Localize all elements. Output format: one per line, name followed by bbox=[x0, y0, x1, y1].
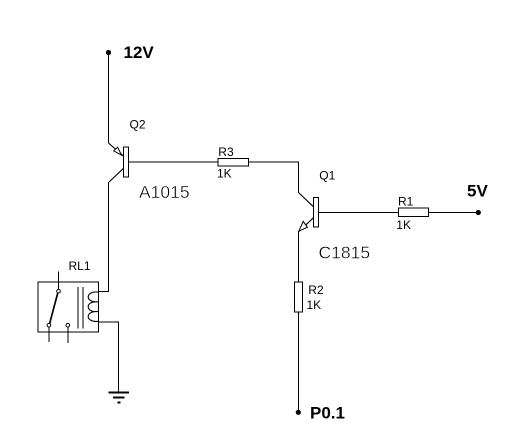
ground bbox=[108, 393, 129, 403]
svg-text:5V: 5V bbox=[467, 182, 488, 201]
resistor R3 bbox=[218, 159, 249, 167]
svg-text:1K: 1K bbox=[396, 218, 411, 232]
svg-text:R2: R2 bbox=[308, 283, 324, 297]
svg-text:R3: R3 bbox=[218, 145, 234, 159]
svg-text:P0.1: P0.1 bbox=[310, 403, 345, 422]
svg-text:Q1: Q1 bbox=[319, 169, 335, 183]
wire Q1 base to R1 bbox=[319, 211, 399, 213]
svg-text:RL1: RL1 bbox=[69, 259, 91, 273]
wire R1 to 5V bbox=[428, 211, 478, 213]
wire Q1 emitter to R2 bbox=[298, 232, 300, 282]
svg-text:1K: 1K bbox=[217, 167, 232, 181]
wire Q2 base to R3 bbox=[129, 161, 219, 163]
resistor R2 bbox=[295, 282, 303, 312]
transistor Q1 C1815 (NPN) bbox=[299, 193, 319, 232]
wire Q2 collector to relay coil bbox=[99, 183, 109, 292]
svg-text:R1: R1 bbox=[398, 195, 414, 209]
transistor Q2 A1015 (PNP) bbox=[109, 143, 129, 183]
svg-text:Q2: Q2 bbox=[130, 118, 146, 132]
node P0.1 bbox=[296, 410, 301, 415]
svg-text:12V: 12V bbox=[124, 43, 155, 62]
svg-text:A1015: A1015 bbox=[139, 182, 190, 202]
node 5V bbox=[476, 210, 481, 215]
wire R2 to P0.1 bbox=[298, 312, 300, 410]
svg-text:1K: 1K bbox=[307, 298, 322, 312]
wire R3 to Q1 collector bbox=[249, 162, 299, 193]
node 12V bbox=[106, 50, 111, 55]
wire relay coil to ground bbox=[99, 322, 119, 393]
relay RL1 bbox=[38, 272, 99, 344]
wire 12V rail down to Q2 emitter bbox=[108, 55, 110, 143]
svg-text:C1815: C1815 bbox=[319, 243, 371, 263]
resistor R1 bbox=[399, 208, 429, 216]
